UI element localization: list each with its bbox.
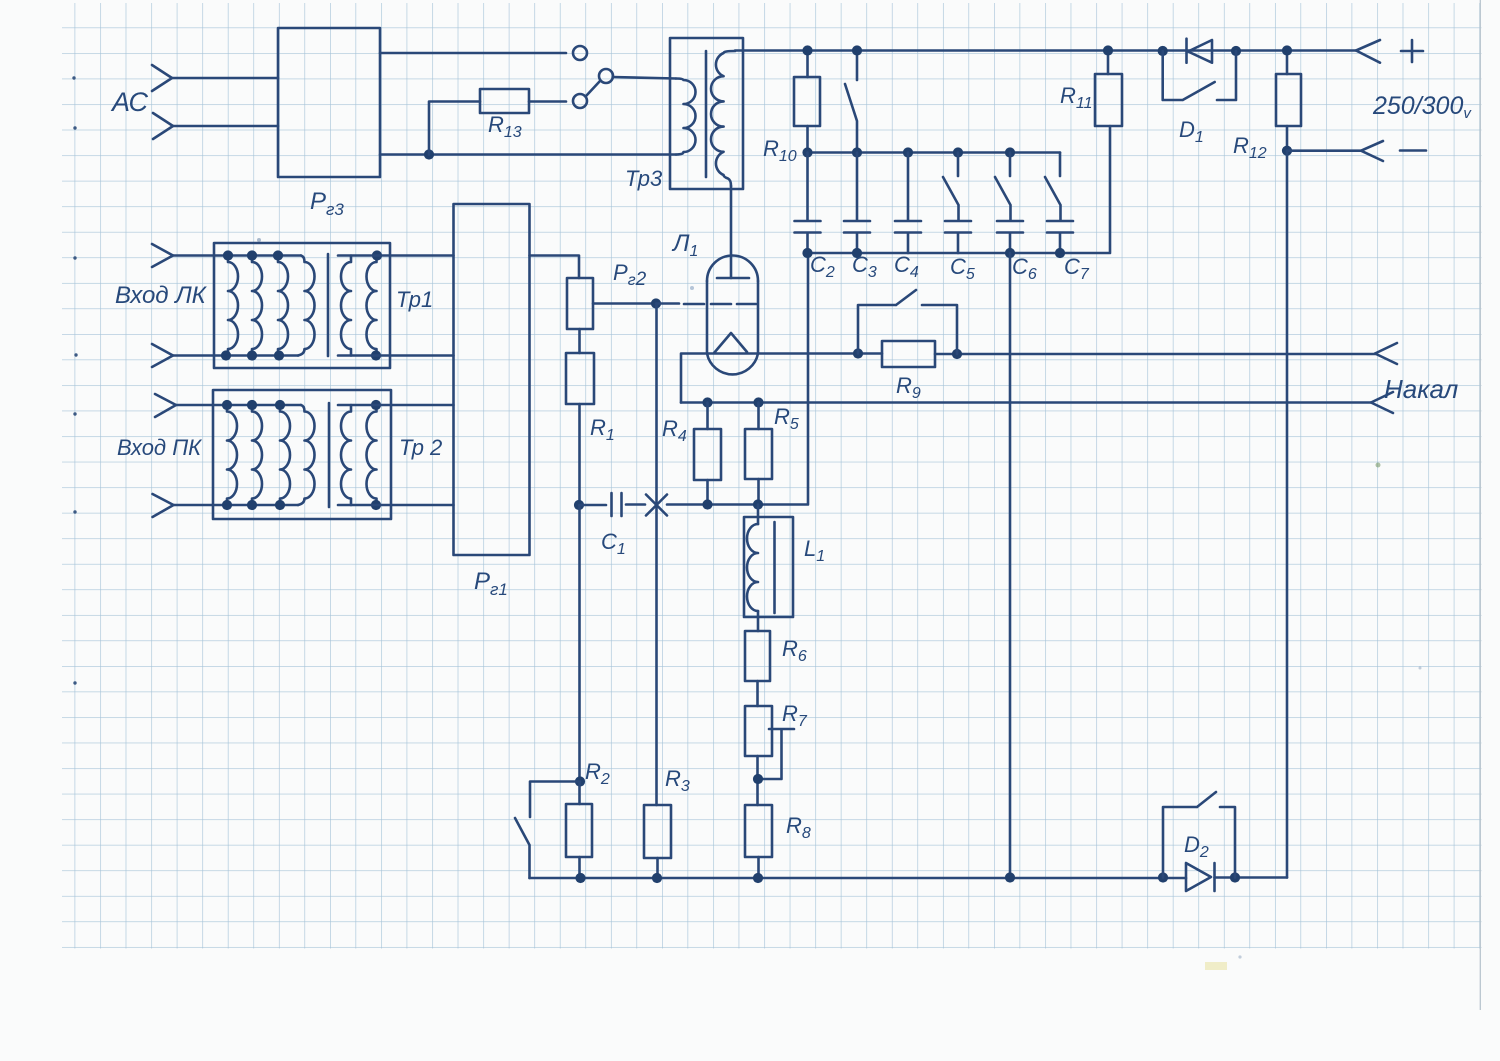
wire Pg3 bottom output to Tp3 primary bottom (380, 153, 676, 156)
node switch S4 top (852, 45, 862, 55)
node R3 bottom (652, 873, 662, 883)
node D1 right (1231, 46, 1241, 56)
resistor R3 (644, 805, 671, 878)
paper specks (257, 238, 1422, 970)
wire R1 node down to R2 (578, 505, 581, 782)
node cap bus C3 (852, 248, 862, 258)
switch S4 beside R10 (845, 51, 857, 153)
node R12 bottom (1282, 146, 1292, 156)
resistor R1 (566, 353, 594, 404)
wire Pg2 wiper to grid node (593, 302, 656, 305)
switch S2 beside R2 (515, 782, 580, 879)
node cap rail C5 (953, 147, 963, 157)
node R11 top (1103, 45, 1113, 55)
resistor R12 (1276, 51, 1301, 151)
node R7 tap (753, 774, 763, 784)
node grid junction (651, 298, 661, 308)
node R2 top (575, 776, 585, 786)
node C1 left (574, 500, 584, 510)
wire cathode right to R9 (758, 352, 882, 355)
switch SA1 selector contacts (573, 46, 613, 108)
node R5 bottom L1 top (753, 499, 763, 509)
wire Tp1 secondary to Pg1 (338, 256, 454, 356)
junction X mark (646, 495, 667, 516)
wire junction up to R13 (429, 102, 480, 155)
connector plus arrow (1356, 40, 1423, 63)
capacitor C2 (795, 153, 821, 254)
node R2 bottom (575, 873, 585, 883)
wire bottom bus (530, 877, 1187, 880)
capacitor C4 (895, 153, 921, 254)
switch S8 bypass D1 (1163, 51, 1236, 100)
connector AC input arrows (152, 65, 173, 139)
wire selector to Tp3 primary top (613, 77, 676, 79)
wire R13 to selector contact (529, 100, 566, 103)
connector minus arrow (1361, 141, 1426, 161)
wire bus D2 right section (1215, 876, 1288, 879)
margin dots (72, 76, 77, 684)
wire capacitor top rail (808, 151, 1061, 154)
switch S9 bypass D2 (1163, 792, 1235, 878)
tube anode plate (717, 277, 749, 280)
node D2 right (1230, 872, 1240, 882)
switch S5 and capacitor C5 (943, 153, 971, 254)
wire X node down to R3 (655, 304, 658, 806)
transformer Tp2 (174, 390, 392, 519)
resistor R10 (794, 51, 820, 153)
wire capacitor bottom rail (808, 126, 1111, 253)
node cap bus C6 (1005, 248, 1015, 258)
node R12 top (1282, 45, 1292, 55)
capacitor C1 (579, 493, 645, 516)
node cap rail C4 (903, 147, 913, 157)
wire Tp3 secondary bottom to tube anode (730, 186, 733, 278)
resistor R5 (745, 403, 772, 505)
node cap rail C2 (802, 147, 812, 157)
switch S7 and capacitor C7 (1045, 153, 1073, 254)
wire Tp2 secondary to Pg1 (338, 405, 454, 505)
resistor R11 (1095, 51, 1122, 127)
wire AC input pair to Pg3 (172, 78, 278, 126)
resistor R9 (882, 341, 1375, 367)
node D2 left (1158, 872, 1168, 882)
potentiometer Pg2 (567, 278, 593, 329)
node cap rail C6 (1005, 147, 1015, 157)
transformer Tp1 (173, 243, 390, 368)
svg-text:Тр3: Тр3 (625, 166, 663, 191)
node R4 top (702, 397, 712, 407)
resistor R2 (566, 782, 592, 879)
wire Pg3 top output to selector contact (380, 52, 566, 55)
node cap rail C3 (852, 147, 862, 157)
diode D1 (1187, 39, 1213, 63)
node cap bus C7 (1055, 248, 1065, 258)
resistor R13 (480, 89, 529, 113)
wire R1 bottom to C1 node (578, 404, 581, 505)
wire Pg1 to potentiometer Pg2 (530, 256, 580, 279)
node cap bus C2 (802, 248, 812, 258)
wire cathode left to heater line (681, 354, 707, 403)
node R5 top (753, 397, 763, 407)
svg-text:Вход ЛК: Вход ЛК (115, 282, 208, 309)
tube grid dashed wire (656, 302, 756, 305)
wire minus line (1287, 149, 1361, 152)
resistor R4 (694, 403, 721, 505)
wire top supply bus (735, 49, 1356, 52)
svg-text:Накал: Накал (1384, 374, 1459, 404)
svg-text:Тр 2: Тр 2 (399, 435, 442, 460)
inductor L1 (744, 505, 793, 632)
relay block Pg3 (278, 28, 380, 177)
wire Pg2 to R1 (578, 329, 581, 353)
node bus x1010 (1005, 872, 1015, 882)
connector input arrow Vhod LK top (152, 244, 173, 267)
resistor R6 (745, 631, 770, 706)
node R9 left (853, 348, 863, 358)
switch S3 bypass R9 (858, 290, 957, 354)
transformer Tp3 (670, 38, 743, 189)
tube cathode (707, 333, 758, 354)
svg-text:Тр1: Тр1 (396, 287, 433, 312)
node R4 bottom (702, 499, 712, 509)
diode D2 (1186, 863, 1215, 891)
wire C1 line to cap bus riser (667, 253, 808, 505)
connector Nakal arrow lower (1371, 392, 1393, 413)
resistor R8 (745, 805, 772, 878)
connector input arrow Vhod PK bottom (153, 494, 174, 517)
svg-text:Вход ПК: Вход ПК (117, 435, 202, 460)
relay block Pg1 (454, 204, 530, 555)
connector input arrow Vhod PK top (155, 394, 176, 417)
svg-text:АС: АС (110, 87, 148, 117)
tube L1 (lamp) envelope (707, 256, 758, 375)
switch S6 and capacitor C6 (995, 153, 1023, 254)
node R9 right (952, 349, 962, 359)
wire heater line lower to Nakal arrow (681, 401, 1371, 404)
node junction R13 branch (424, 149, 434, 159)
node R10 top (802, 45, 812, 55)
svg-text:250/300v: 250/300v (1372, 92, 1472, 122)
node R8 bottom (753, 873, 763, 883)
resistor R7 with tap (745, 706, 794, 805)
capacitor C3 (844, 153, 870, 254)
connector input arrow Vhod LK bottom (152, 344, 173, 367)
connector Nakal arrow upper (1375, 343, 1397, 364)
wire cap bus down to bottom bus (1009, 253, 1012, 878)
node D1 left (1158, 46, 1168, 56)
wire R12 down to bottom bus (1286, 151, 1289, 878)
